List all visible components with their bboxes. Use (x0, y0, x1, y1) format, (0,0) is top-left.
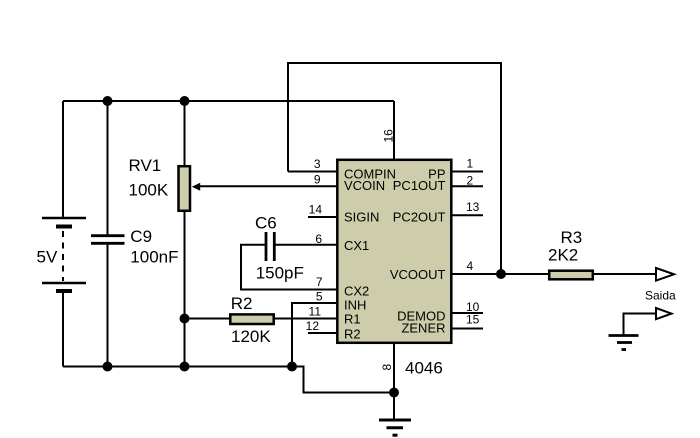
wire R2 left lead (185, 318, 231, 320)
svg-text:4046: 4046 (405, 359, 443, 378)
svg-text:SIGIN: SIGIN (344, 210, 379, 225)
svg-text:2K2: 2K2 (548, 246, 578, 265)
svg-text:C9: C9 (130, 227, 152, 246)
battery plate short bottom (56, 289, 72, 293)
wire pin 3 COMPIN (288, 171, 337, 173)
svg-text:Saida: Saida (645, 289, 676, 303)
svg-text:RV1: RV1 (129, 156, 162, 175)
wire pin 6 CX1 from C6 (274, 244, 337, 246)
wire R2 right lead to pin 11 (274, 318, 337, 320)
svg-text:120K: 120K (231, 327, 271, 346)
battery BT1 (42, 218, 86, 291)
wire pin 13 PC2OUT stub (452, 214, 483, 216)
wire pin16 drop from rail to IC top (393, 101, 395, 160)
wire output arrow 2 to ground (624, 314, 657, 335)
junction dot rail-C9 (103, 96, 113, 106)
svg-text:6: 6 (315, 232, 322, 246)
svg-text:5V: 5V (37, 248, 58, 267)
svg-text:16: 16 (382, 129, 396, 143)
svg-text:PC1OUT: PC1OUT (393, 178, 446, 193)
junction dot ground-RV1 (180, 362, 190, 372)
junction dot ground-C9 (103, 362, 113, 372)
wire RV1 bottom lead (184, 211, 186, 367)
svg-text:9: 9 (314, 172, 321, 186)
svg-text:VCOOUT: VCOOUT (390, 267, 446, 282)
wire bottom ground rail (63, 366, 292, 368)
svg-text:VCOIN: VCOIN (344, 178, 385, 193)
svg-text:15: 15 (466, 312, 480, 326)
svg-text:CX2: CX2 (344, 284, 369, 299)
ground symbol main (pin 8) (379, 420, 411, 435)
resistor R2 body (230, 314, 273, 324)
svg-text:150pF: 150pF (256, 263, 304, 282)
wire pin 14 SIGIN stub (308, 216, 337, 218)
svg-text:13: 13 (466, 200, 480, 214)
ground symbol output side (609, 336, 639, 350)
battery plate long top (42, 217, 86, 220)
svg-text:5: 5 (316, 290, 323, 304)
svg-text:100nF: 100nF (130, 248, 178, 267)
wire C9 top lead (107, 101, 109, 235)
battery dashed middle (62, 231, 64, 281)
svg-text:PC2OUT: PC2OUT (393, 210, 446, 225)
wire feedback loop pin3 to pin4 (288, 63, 501, 274)
junction dot pin8 node (389, 388, 399, 398)
svg-text:R3: R3 (561, 228, 583, 247)
svg-text:R1: R1 (344, 311, 361, 326)
output arrow 2 (ground reference) (656, 308, 672, 319)
battery plate short top (56, 225, 72, 229)
wire battery bottom lead (62, 293, 64, 367)
wire pin 8 to ground (393, 344, 395, 419)
output arrow Saida (656, 268, 674, 281)
wire C9 bottom lead (107, 244, 109, 367)
junction dot rail-RV1 (180, 96, 190, 106)
junction dot feedback-pin4 (496, 269, 506, 279)
svg-text:100K: 100K (129, 181, 169, 200)
op-amp / IC U1 4046 body (337, 160, 451, 343)
potentiometer RV1 body (179, 166, 191, 211)
junction dot R2 left (180, 314, 190, 324)
wire pin 12 R2 stub (308, 332, 337, 334)
svg-text:R2: R2 (344, 326, 361, 341)
svg-text:14: 14 (309, 203, 323, 217)
wire C6 left loop to pin 7 CX2 (241, 245, 337, 290)
junction dot ground rail end (287, 362, 297, 372)
svg-text:ZENER: ZENER (401, 320, 445, 335)
svg-text:3: 3 (314, 157, 321, 171)
wire ground rail to pin 8 node (292, 367, 394, 393)
wire pin 2 PC1OUT stub (452, 185, 483, 187)
svg-text:12: 12 (306, 319, 320, 333)
svg-text:4: 4 (467, 259, 474, 273)
wire RV1 top lead (184, 101, 186, 166)
wire pin 4 VCOOUT to output (452, 273, 656, 275)
svg-text:R2: R2 (231, 294, 253, 313)
svg-text:C6: C6 (255, 213, 277, 232)
svg-text:1: 1 (467, 157, 474, 171)
svg-text:11: 11 (309, 305, 322, 319)
wire pin 10 DEMOD stub (452, 312, 483, 314)
wire top supply rail (63, 100, 394, 102)
svg-text:8: 8 (380, 364, 394, 371)
wire pin 5 INH to ground rail (292, 303, 337, 367)
battery plate long bottom (42, 282, 86, 285)
capacitor C6 plates (266, 232, 274, 261)
resistor R3 body (549, 271, 593, 280)
wire pin 1 PP stub (452, 171, 483, 173)
wire pin 15 ZENER stub (452, 328, 483, 330)
wire battery top lead (62, 101, 64, 218)
wiper arrowhead (192, 183, 200, 191)
capacitor C9 plates (91, 236, 125, 244)
svg-text:CX1: CX1 (344, 238, 369, 253)
svg-text:7: 7 (316, 275, 323, 289)
wire pin 9 VCOIN to wiper (195, 185, 337, 187)
svg-text:2: 2 (467, 173, 474, 187)
